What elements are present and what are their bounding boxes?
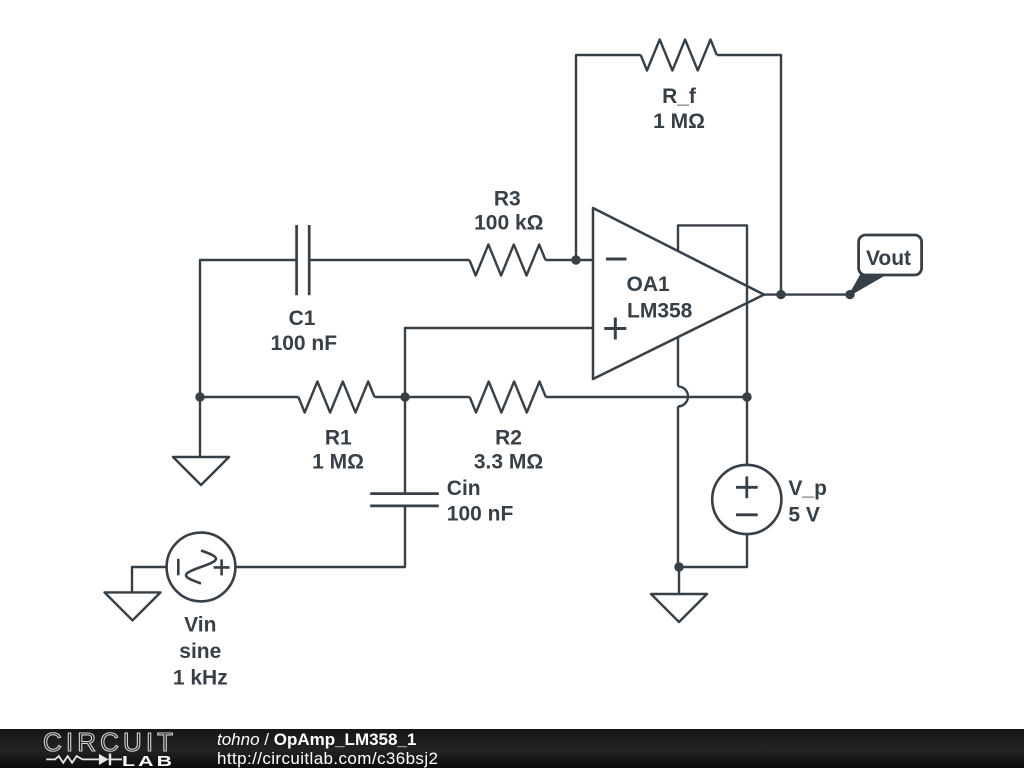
resistor R3: [469, 245, 545, 276]
svg-text:3.3 MΩ: 3.3 MΩ: [474, 450, 543, 473]
wire: center node down to Cin top plate: [404, 397, 406, 494]
node: output junction with R_f branch: [776, 290, 785, 299]
resistor R1: [298, 382, 374, 413]
node: ground junction V-/V_p-: [674, 562, 683, 571]
svg-text:V_p: V_p: [788, 477, 827, 500]
V_p plus terminal mark: [736, 476, 758, 498]
svg-text:LM358: LM358: [627, 300, 693, 323]
svg-text:OA1: OA1: [627, 273, 671, 296]
wire: op-amp V- pin down to hop: [677, 337, 679, 386]
node: supply junction R2/V+/V_p: [742, 392, 751, 401]
node: junction left rail / R1 / ground: [195, 392, 204, 401]
CircuitLab logo wordmark LAB: [122, 753, 175, 770]
wire: Vin negative lead to ground: [132, 567, 167, 592]
wire: feedback branch left vertical (node at inverting input up to top rail): [576, 55, 641, 260]
ground (below Vin): [105, 592, 161, 620]
op-amp non-inverting input marker: [604, 318, 626, 340]
wire: non-inverting input from op-amp to center node: [405, 328, 593, 397]
resistor R2: [470, 382, 546, 413]
svg-text:1 MΩ: 1 MΩ: [312, 450, 364, 473]
wire: center node to R2 and on to supply node: [405, 396, 470, 398]
wire: feedback branch right vertical down to output net: [717, 55, 781, 295]
wire: C1 right plate to R3: [309, 259, 469, 261]
Vin plus terminal mark: [214, 559, 230, 575]
flag Vout box: [859, 235, 922, 275]
voltage source Vin (sine): [167, 533, 236, 602]
wire: R3 to inverting input of op-amp: [546, 259, 594, 261]
wire: V_p minus lead down and left to ground node: [679, 534, 747, 567]
footer bar: [0, 729, 1024, 768]
ground (left, below R1 node): [173, 457, 229, 485]
wire: op-amp V+ pin up over to supply node: [678, 225, 747, 397]
V_p minus terminal mark: [736, 513, 758, 516]
wire: input net from C1 left plate left and down the left rail: [200, 260, 297, 397]
flag Vout pointer: [850, 275, 884, 295]
svg-text:sine: sine: [179, 640, 221, 663]
Vin minus terminal mark: [177, 559, 180, 576]
svg-text:5 V: 5 V: [788, 504, 820, 527]
ground (below V_p): [651, 594, 707, 622]
capacitor C1: [297, 225, 310, 295]
svg-text:Cin: Cin: [447, 477, 481, 500]
svg-text:100 kΩ: 100 kΩ: [474, 212, 543, 235]
CircuitLab logo resistor-diode glyph: [40, 748, 130, 768]
footer url: [217, 749, 438, 769]
voltage source V_p: [712, 465, 781, 534]
wire: Cin bottom plate down and left to Vin: [235, 506, 405, 567]
svg-text:1 kHz: 1 kHz: [173, 667, 228, 690]
node: center junction R1/R2/Cin/+input: [400, 392, 409, 401]
svg-text:R3: R3: [494, 187, 521, 210]
wire: supply node down to V_p plus terminal: [746, 397, 748, 465]
wire: ground node to R1: [200, 396, 298, 398]
wire: V- pin below hop down to ground net: [677, 406, 679, 567]
svg-text:100 nF: 100 nF: [447, 503, 514, 526]
wire: op-amp output to Vout node: [764, 293, 850, 295]
node: junction at inverting input / R_f: [571, 255, 580, 264]
capacitor Cin: [370, 494, 439, 506]
wire hop: V- pin wire crossing R2 net: [678, 386, 688, 406]
svg-text:1 MΩ: 1 MΩ: [653, 110, 705, 133]
svg-text:Vout: Vout: [866, 247, 911, 270]
wire: ground stub below V- net: [678, 567, 680, 594]
footer title: tohno / OpAmp_LM358_1: [217, 730, 416, 750]
svg-text:Vin: Vin: [184, 614, 216, 637]
svg-text:C1: C1: [289, 307, 316, 330]
node: Vout terminal: [845, 290, 854, 299]
svg-text:R_f: R_f: [662, 85, 697, 108]
svg-text:100 nF: 100 nF: [271, 332, 338, 355]
wire: ground stub below left rail: [199, 397, 201, 457]
op-amp OA1 triangle body: [593, 208, 764, 379]
op-amp inverting input marker: [606, 258, 627, 261]
Vin sine wave glyph: [186, 551, 216, 584]
svg-text:R1: R1: [325, 426, 352, 449]
wire: R1 to center node: [375, 396, 406, 398]
CircuitLab logo wordmark CIRCUIT: [43, 727, 177, 758]
wire: R2 right lead to supply node: [546, 396, 747, 398]
resistor R_f: [641, 40, 717, 71]
svg-text:R2: R2: [495, 426, 522, 449]
